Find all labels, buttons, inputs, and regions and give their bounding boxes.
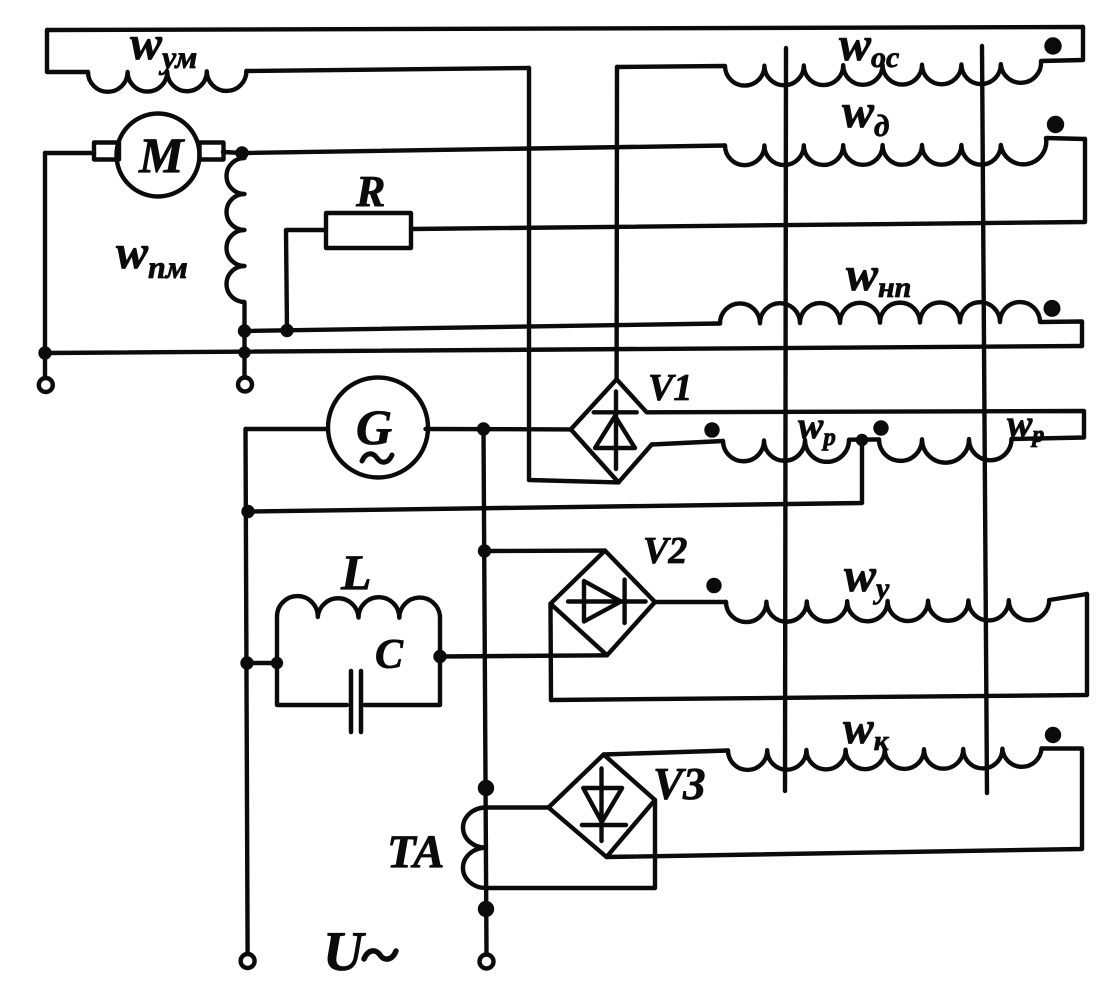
wire V2 right out: [655, 600, 726, 604]
wire V2 top feed: [485, 548, 606, 553]
wire vertical x529 down to V1 bottom: [529, 68, 619, 482]
rectifier V1 diamond: [571, 379, 652, 482]
wire V1 lower out to w_р: [652, 441, 723, 445]
wire G left: [246, 427, 329, 431]
label C: [375, 632, 404, 678]
core line right: [982, 46, 987, 793]
LC loop right side: [365, 616, 441, 705]
label w_у: [844, 549, 890, 605]
node w_р dot left: [707, 425, 718, 436]
node tap return left: [244, 507, 253, 516]
svg-text:R: R: [355, 167, 385, 216]
terminal left supply: [241, 954, 255, 968]
wire w_к left in from V3: [604, 751, 728, 755]
label w_нп: [846, 248, 911, 304]
generator G: [328, 378, 428, 478]
wire bottom rail: [45, 346, 1082, 353]
terminal left: [39, 378, 53, 392]
terminal w_пм: [238, 378, 252, 392]
wire V2 left vertex down: [548, 604, 553, 700]
wire w_р tap return: [248, 440, 862, 512]
node bottom rail left: [41, 349, 50, 358]
node LC left T: [273, 659, 281, 667]
label V1: [648, 367, 692, 409]
label G: [356, 399, 392, 455]
wire w_ос left drop to V1: [614, 67, 619, 379]
label w_ос: [839, 18, 899, 74]
label w_пм: [116, 226, 188, 285]
core line left: [785, 48, 786, 791]
node w_р tap: [858, 436, 866, 444]
node TA top dot: [480, 782, 492, 794]
label V2: [643, 530, 687, 572]
motor M circle: [117, 114, 200, 197]
winding w_ос: [617, 27, 1083, 86]
winding w_у: [726, 594, 1087, 622]
winding w_р section2: [879, 439, 1012, 463]
node w_нп dot: [1046, 302, 1059, 315]
node R bottom junction: [283, 326, 292, 335]
diode V3 inside: [599, 769, 603, 842]
svg-text:G: G: [356, 399, 392, 455]
label G tilde: [362, 454, 392, 462]
label M: [138, 127, 185, 183]
node rail crossing: [241, 349, 249, 357]
wire left supply vertical: [246, 429, 248, 954]
label w_к: [843, 702, 890, 757]
svg-text:wпм: wпм: [116, 226, 188, 285]
wire top rail: [47, 27, 1083, 30]
wire V3 left to TA: [486, 805, 549, 809]
wire top-left drop to w_um: [47, 30, 88, 72]
transformer TA coil: [463, 808, 486, 889]
node w_у dot: [709, 580, 720, 591]
label V3: [653, 759, 706, 809]
label w_д: [842, 85, 889, 143]
wire R left down: [286, 230, 326, 331]
svg-text:L: L: [340, 544, 372, 600]
svg-text:wнп: wнп: [846, 248, 911, 304]
label L: [340, 544, 372, 600]
node w_к dot: [1047, 729, 1059, 741]
winding w_к: [728, 749, 1042, 770]
svg-text:V3: V3: [653, 759, 706, 809]
wire w_у return: [551, 594, 1087, 700]
node G wire junction: [479, 425, 488, 434]
wire w_к right return: [607, 749, 1083, 858]
rectifier V3 diamond: [549, 755, 656, 858]
wire V1 upper out: [647, 411, 1084, 439]
svg-text:wк: wк: [843, 702, 890, 757]
svg-text:V2: V2: [643, 530, 687, 572]
wire left vertical to terminal: [43, 153, 47, 377]
winding w_д: [725, 138, 1085, 165]
wire motor left: [45, 151, 94, 155]
terminal mid supply: [480, 955, 494, 969]
wire G right to V1: [426, 427, 571, 432]
capacitor C plates: [349, 671, 354, 732]
node LC feed junction: [243, 659, 252, 668]
svg-text:V1: V1: [648, 367, 692, 409]
inductor L: [277, 596, 440, 618]
node TA bottom dot: [480, 903, 492, 915]
winding w_ум: [88, 71, 246, 92]
node w_д dot: [1049, 118, 1062, 131]
label TA: [387, 826, 444, 878]
svg-text:U: U: [323, 921, 366, 983]
winding w_нп: [720, 302, 1082, 346]
label U~: [323, 921, 366, 983]
wire R right to w_д return: [411, 139, 1085, 229]
rectifier V2 diamond: [551, 551, 656, 656]
motor right brush: [200, 143, 224, 160]
svg-text:wд: wд: [842, 85, 889, 143]
node w_ос dot: [1047, 40, 1060, 53]
svg-text:wум: wум: [130, 17, 197, 75]
node w_пм bottom junction: [240, 327, 249, 336]
svg-text:M: M: [138, 127, 185, 183]
svg-text:wу: wу: [844, 549, 890, 605]
svg-text:C: C: [375, 632, 404, 678]
node LC right junction: [436, 652, 445, 661]
wire w_нп feed: [245, 324, 721, 332]
wire motor right to w_д: [223, 146, 725, 154]
resistor R: [326, 213, 411, 248]
wire w_um right to vertical: [246, 68, 529, 71]
label w_р second: [1007, 403, 1044, 448]
wire mid supply vertical: [484, 429, 487, 955]
wire V2 bottom to LC: [440, 655, 607, 656]
node w_р dot mid: [876, 423, 887, 434]
wire V3 right down to TA: [486, 800, 655, 888]
LC loop left side: [277, 616, 347, 705]
wire LC feed: [247, 661, 277, 665]
diode V2 inside: [568, 599, 646, 603]
diode V1 inside: [614, 392, 618, 470]
node V2 feed junction: [480, 547, 489, 556]
label R: [355, 167, 385, 216]
motor left brush: [94, 143, 119, 160]
winding w_р section1: [723, 440, 879, 462]
winding w_пм (vertical): [227, 153, 245, 377]
node motor right junction: [238, 149, 247, 158]
label w_ум: [130, 17, 197, 75]
label w_р first: [798, 405, 836, 451]
svg-text:TA: TA: [387, 826, 444, 878]
